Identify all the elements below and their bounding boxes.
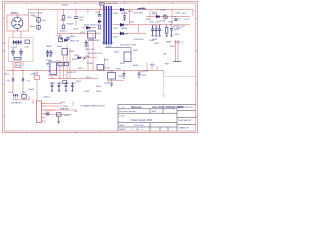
opto drive line bbox=[55, 58, 97, 62]
snubber resistor R603 bbox=[98, 25, 100, 29]
thermistor TH601 bbox=[37, 18, 40, 23]
grounds under caps bbox=[51, 91, 74, 92]
svg-text:R645: R645 bbox=[146, 19, 152, 21]
sub bus under feedback bbox=[107, 80, 124, 82]
TL431 ground bbox=[111, 79, 113, 84]
heater top marks bbox=[174, 42, 180, 44]
bridge rectifier BR601 bbox=[12, 15, 23, 31]
svg-text:R632: R632 bbox=[150, 65, 156, 67]
resistor R617 bbox=[65, 63, 69, 66]
heater resistor pair wires bbox=[176, 40, 179, 62]
svg-text:C610: C610 bbox=[64, 83, 70, 85]
junction dot row1 bbox=[127, 9, 128, 10]
fuse box F601 bbox=[25, 40, 29, 44]
transformer T601 secondary bars bbox=[109, 6, 111, 45]
svg-text:BR601: BR601 bbox=[11, 12, 19, 15]
mid lower bits bbox=[58, 63, 63, 66]
discharge resistor R602 bbox=[14, 57, 21, 60]
svg-text:D626: D626 bbox=[114, 52, 120, 54]
svg-text:R619: R619 bbox=[89, 40, 95, 42]
small box R622 bbox=[63, 81, 67, 84]
spare navy specks bbox=[61, 37, 70, 39]
svg-text:Q620: Q620 bbox=[160, 21, 166, 23]
wire bridge to EMI bbox=[13, 31, 21, 38]
svg-text:Power Supply 15VA: Power Supply 15VA bbox=[131, 119, 152, 122]
svg-text:Q601: Q601 bbox=[80, 32, 86, 34]
connector pin wires bbox=[48, 104, 63, 107]
svg-text:C625: C625 bbox=[175, 13, 181, 15]
wire top +B bus bbox=[29, 9, 194, 11]
wire thermistor branch bbox=[38, 10, 40, 30]
wire x150 link bbox=[149, 10, 151, 17]
svg-text:C616: C616 bbox=[141, 75, 147, 77]
wire relay to connector bbox=[36, 80, 38, 102]
transistor Q620 bbox=[163, 15, 167, 19]
svg-text:C635: C635 bbox=[140, 8, 146, 10]
junction dots AC bus bbox=[13, 70, 140, 71]
snubber cap below row1 bbox=[124, 10, 126, 16]
wire IC feed bbox=[48, 48, 88, 76]
right small parts bbox=[152, 62, 157, 71]
svg-text:CN601: CN601 bbox=[43, 97, 51, 99]
zener ZD601 bbox=[62, 25, 65, 29]
svg-text:DRAWN BY: DRAWN BY bbox=[178, 126, 190, 129]
small box mid bbox=[62, 49, 68, 56]
svg-text:2001-1-30: 2001-1-30 bbox=[134, 125, 144, 127]
wire riser from bridge to bus bbox=[28, 10, 30, 31]
wire heater feed bbox=[46, 109, 78, 111]
PWM controller area: vertical control lines bbox=[60, 48, 70, 79]
secondary rectifier D621 row2 bbox=[112, 24, 190, 26]
cap C611 bbox=[46, 50, 49, 57]
secondary rectifier D620 on bus row bbox=[120, 8, 123, 11]
svg-text:D621: D621 bbox=[113, 28, 119, 30]
svg-text:R631: R631 bbox=[116, 69, 122, 71]
svg-text:C624: C624 bbox=[168, 22, 174, 24]
svg-text:BCK-19-594: BCK-19-594 bbox=[102, 43, 114, 45]
svg-text:C604: C604 bbox=[84, 46, 90, 48]
cap C615 bbox=[123, 71, 125, 74]
EMI filter box bbox=[9, 38, 34, 62]
diode D605 bbox=[82, 27, 96, 29]
svg-text:R644: R644 bbox=[154, 43, 160, 45]
wire x147 bbox=[146, 62, 148, 71]
frame outer border bbox=[3, 2, 198, 133]
degauss bottom wire bbox=[13, 96, 33, 104]
connector CN601 bbox=[37, 101, 56, 122]
svg-text:R618: R618 bbox=[45, 112, 51, 114]
IC pin stubs bbox=[48, 64, 58, 72]
svg-text:R604: R604 bbox=[30, 26, 36, 28]
svg-text:DATE: DATE bbox=[119, 124, 125, 127]
degauss coil L602 bbox=[13, 94, 18, 98]
transformer aux winding wire bbox=[105, 48, 131, 53]
svg-text:220u: 220u bbox=[79, 19, 85, 21]
right vertical of AC bus bbox=[163, 71, 165, 75]
svg-text:SB560: SB560 bbox=[121, 28, 128, 30]
switching IC / FET box Q601 bbox=[87, 10, 89, 13]
svg-text:REV: REV bbox=[152, 111, 157, 113]
svg-text:R628: R628 bbox=[129, 21, 135, 23]
diode D606 bbox=[65, 39, 68, 42]
feed vertical x172 bbox=[171, 10, 173, 25]
AC inlet CN600 bbox=[15, 63, 21, 68]
ground under aux bbox=[58, 116, 60, 121]
wire mid row y16.6 bbox=[146, 10, 193, 17]
svg-text:R616: R616 bbox=[96, 86, 102, 88]
relay contact to connector bbox=[36, 71, 38, 76]
svg-text:+15V: +15V bbox=[184, 19, 190, 21]
choke hatch bbox=[14, 40, 21, 45]
svg-text:ZD601: ZD601 bbox=[60, 31, 67, 33]
transistor arrow Q604 bbox=[83, 58, 85, 60]
title block outline bbox=[118, 105, 196, 131]
svg-text:R646: R646 bbox=[152, 39, 158, 41]
svg-text:C615: C615 bbox=[118, 76, 124, 78]
svg-text:F602: F602 bbox=[33, 73, 39, 75]
svg-text:◎: ◎ bbox=[122, 106, 124, 109]
svg-text:R605: R605 bbox=[70, 36, 76, 38]
X-cap CX601 bbox=[11, 49, 15, 57]
svg-text:C614: C614 bbox=[74, 55, 80, 57]
snubber diode box on top bbox=[101, 5, 104, 10]
svg-text:R608: R608 bbox=[46, 46, 52, 48]
svg-text:R611 1M: R611 1M bbox=[85, 49, 94, 51]
svg-text:IC602: IC602 bbox=[108, 71, 115, 73]
junction dots mid row bbox=[154, 24, 155, 25]
secondary rectifier D622 row3 bbox=[112, 33, 146, 35]
aux cap C641 bbox=[46, 114, 49, 115]
wire aux vertical x57.5 bbox=[57, 10, 59, 34]
grounds under caps bbox=[151, 35, 173, 36]
diode D607 on drive line bbox=[78, 57, 81, 59]
lower aux wire bbox=[44, 114, 72, 116]
svg-text:R630: R630 bbox=[133, 65, 139, 67]
svg-text:C606: C606 bbox=[73, 29, 79, 31]
X-cap CX602 bbox=[19, 49, 23, 57]
svg-text:TH602: TH602 bbox=[28, 89, 35, 91]
svg-text:R633: R633 bbox=[143, 71, 149, 73]
svg-text:C608: C608 bbox=[50, 83, 56, 85]
svg-text:D623: D623 bbox=[152, 12, 158, 14]
svg-text:C632: C632 bbox=[176, 28, 182, 30]
cap C631 bbox=[171, 25, 173, 28]
wire primary stubs bbox=[103, 9, 104, 11]
svg-text:R611 R612 473: R611 R612 473 bbox=[88, 53, 103, 55]
svg-text:R606 10K: R606 10K bbox=[70, 41, 80, 43]
svg-text:+B 80V: +B 80V bbox=[61, 5, 69, 7]
mid vertical wires bbox=[60, 34, 93, 71]
filter caps row x152-160 bbox=[151, 25, 161, 35]
svg-text:R621: R621 bbox=[78, 68, 84, 70]
caps mid bbox=[50, 40, 88, 57]
heater bottom component bbox=[173, 61, 181, 63]
svg-text:100K: 100K bbox=[67, 17, 73, 19]
svg-text:R613: R613 bbox=[76, 81, 82, 83]
svg-text:560K: 560K bbox=[85, 56, 91, 58]
svg-text:D620: D620 bbox=[113, 13, 119, 15]
svg-text:C609: C609 bbox=[57, 83, 63, 85]
snubber diode D602 bbox=[98, 20, 101, 22]
startup resistor R601 bbox=[63, 10, 65, 16]
svg-text:Document Number: Document Number bbox=[119, 110, 137, 113]
svg-text:C603: C603 bbox=[41, 20, 47, 22]
ground under snubber bbox=[123, 20, 126, 21]
line filter L601 bbox=[13, 41, 23, 44]
svg-text:C607: C607 bbox=[46, 51, 52, 53]
svg-text:TL431: TL431 bbox=[104, 68, 111, 70]
junction dot row2 bbox=[127, 24, 128, 25]
svg-text:D641: D641 bbox=[160, 10, 166, 12]
bulk capacitor C601 bbox=[75, 10, 77, 26]
wire bridge loop bbox=[7, 15, 29, 31]
svg-text:PC601: PC601 bbox=[87, 63, 94, 65]
fusible resistor F601 bbox=[37, 26, 40, 30]
wire stub x73 bbox=[72, 101, 74, 106]
AC long bus bbox=[6, 70, 164, 72]
svg-text:+80V: +80V bbox=[60, 102, 66, 104]
frame zone ticks bbox=[3, 2, 198, 133]
transformer T601 primary bars bbox=[104, 6, 106, 45]
snubber cap C602 bbox=[99, 10, 101, 24]
svg-text:R610: R610 bbox=[71, 83, 77, 85]
svg-text:TO MAIN BOARD CN201: TO MAIN BOARD CN201 bbox=[80, 105, 106, 108]
svg-text:TITLE: TITLE bbox=[119, 115, 125, 117]
TL431 box IC602 bbox=[124, 52, 131, 62]
cap C616 bbox=[138, 71, 140, 73]
svg-text:C620 100u: C620 100u bbox=[133, 13, 144, 15]
Y-cap CY601 bbox=[12, 71, 14, 79]
svg-text:R615: R615 bbox=[72, 59, 78, 61]
svg-text:Q602: Q602 bbox=[69, 51, 75, 53]
svg-text:D605 UF4007: D605 UF4007 bbox=[84, 25, 98, 27]
svg-text:R638: R638 bbox=[120, 63, 126, 65]
posistor TH602 bbox=[22, 95, 26, 99]
caps under control bus bbox=[51, 82, 74, 91]
junction dots control bus bbox=[53, 78, 75, 79]
resistor R624 vertical bbox=[166, 27, 168, 33]
svg-text:D622: D622 bbox=[113, 37, 119, 39]
svg-text:SHEET: SHEET bbox=[119, 129, 127, 131]
junction dot row3 bbox=[127, 33, 128, 34]
svg-text:R623: R623 bbox=[57, 46, 63, 48]
svg-text:HEATER: HEATER bbox=[60, 107, 69, 110]
svg-text:R640: R640 bbox=[166, 42, 172, 44]
grey CRT line horizontal bbox=[164, 76, 196, 78]
svg-text:C640: C640 bbox=[64, 115, 70, 117]
Y-cap CY602 bbox=[22, 71, 24, 79]
svg-text:F601 T3.15A: F601 T3.15A bbox=[30, 12, 43, 15]
svg-text:C618: C618 bbox=[84, 91, 90, 93]
svg-text:CHECKED BY: CHECKED BY bbox=[178, 120, 192, 122]
vertical join rows bbox=[130, 10, 139, 34]
svg-text:CX601: CX601 bbox=[11, 47, 18, 49]
mid bus bbox=[57, 33, 96, 35]
misc value labels bbox=[6, 11, 184, 114]
svg-text:D619 FR107: D619 FR107 bbox=[106, 3, 119, 5]
svg-text:R637: R637 bbox=[104, 60, 110, 62]
misc mid components bbox=[59, 38, 63, 42]
svg-text:APPROVED BY: APPROVED BY bbox=[178, 106, 194, 109]
svg-text:C628: C628 bbox=[174, 34, 180, 36]
right cap C630 bbox=[174, 19, 177, 20]
svg-text:R613 222: R613 222 bbox=[67, 72, 77, 74]
svg-text:R614: R614 bbox=[86, 77, 92, 79]
wire EMI to AC bus bbox=[13, 62, 23, 71]
svg-text:R636: R636 bbox=[96, 91, 102, 93]
wire opto feed vertical bbox=[104, 58, 106, 71]
svg-text:R641: R641 bbox=[170, 46, 176, 48]
frame inner border bbox=[4, 3, 195, 131]
aux cap C640 bbox=[57, 113, 62, 116]
svg-text:D625 R627 C629: D625 R627 C629 bbox=[120, 45, 137, 47]
control bus horizontal bbox=[48, 78, 98, 80]
svg-text:1N4148: 1N4148 bbox=[66, 24, 74, 26]
svg-text:R607: R607 bbox=[57, 36, 63, 38]
opto PC601 bbox=[97, 65, 104, 71]
frame zone numerals bbox=[3, 2, 198, 134]
grey CRT vertical bbox=[163, 75, 165, 96]
svg-text:DEGAUSS: DEGAUSS bbox=[11, 102, 22, 105]
svg-text:C617: C617 bbox=[104, 83, 110, 85]
svg-text:Q601: Q601 bbox=[96, 33, 102, 35]
output diode D623 bbox=[156, 15, 159, 18]
ground under C607 bbox=[46, 60, 50, 65]
bridge terminal dots bbox=[11, 17, 23, 29]
svg-text:D622: D622 bbox=[122, 34, 128, 36]
grey node dot bbox=[163, 95, 165, 97]
svg-text:C633 R629: C633 R629 bbox=[133, 39, 144, 41]
svg-text:C602: C602 bbox=[95, 12, 101, 14]
inductor L620 on bus bbox=[138, 8, 146, 9]
svg-text:R635: R635 bbox=[133, 50, 139, 52]
controller IC U601 bbox=[50, 62, 57, 75]
svg-text:NetcLase: NetcLase bbox=[131, 106, 142, 109]
feedback components near bus bbox=[108, 73, 116, 80]
svg-text:FG: FG bbox=[2, 43, 5, 45]
svg-text:C622: C622 bbox=[149, 22, 155, 24]
junction dots on top bus bbox=[63, 9, 173, 10]
svg-text:R609: R609 bbox=[46, 56, 52, 58]
svg-text:+80V: +80V bbox=[181, 13, 187, 15]
